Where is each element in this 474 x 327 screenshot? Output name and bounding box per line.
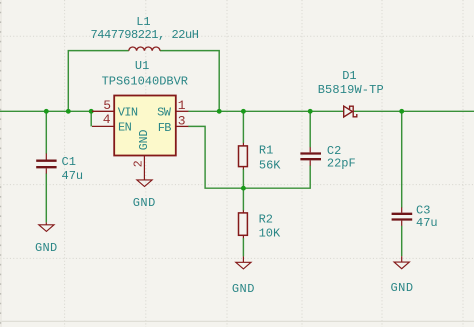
- svg-text:R1: R1: [259, 144, 273, 158]
- capacitor C3 pin stubs: [401, 207, 403, 212]
- svg-text:4: 4: [103, 112, 111, 127]
- resistor R2 body: [239, 213, 248, 235]
- svg-text:3: 3: [178, 114, 186, 129]
- svg-text:U1: U1: [135, 59, 149, 73]
- wire main bus left: [0, 110, 91, 112]
- svg-text:SW: SW: [157, 106, 172, 120]
- svg-text:7447798221, 22uH: 7447798221, 22uH: [90, 28, 198, 42]
- U1 pin 3 FB stub: [176, 125, 189, 127]
- svg-text:2: 2: [133, 160, 146, 167]
- svg-text:C1: C1: [62, 155, 76, 169]
- resistor R1 body: [239, 146, 248, 167]
- wire C3 bottom lead: [401, 226, 403, 257]
- wire diode to right edge: [354, 110, 474, 112]
- capacitor C1 pin stubs: [45, 153, 47, 159]
- svg-text:GND: GND: [232, 282, 255, 296]
- wire C2 top lead: [309, 111, 311, 147]
- U1 pin 1 SW stub: [176, 110, 189, 112]
- capacitor C1 plates: [36, 161, 56, 168]
- svg-text:10K: 10K: [259, 227, 281, 241]
- ground symbol under C1: [45, 222, 47, 224]
- U1 pin 4 EN stub: [92, 125, 114, 127]
- svg-text:FB: FB: [158, 121, 172, 135]
- wire inductor loop: [68, 51, 129, 112]
- svg-text:47u: 47u: [416, 216, 438, 230]
- ground R2 triangle: [236, 262, 251, 269]
- svg-text:L1: L1: [136, 15, 150, 29]
- svg-text:GND: GND: [138, 129, 151, 150]
- wire SW to diode: [188, 110, 344, 112]
- U1 pin 5 VIN stub: [92, 110, 114, 112]
- junction node loop left leg: [66, 109, 71, 114]
- capacitor C3 plates: [392, 214, 413, 220]
- junction node SW loop: [217, 109, 222, 114]
- junction node C3 tap: [399, 109, 404, 114]
- IC U1 body: [114, 96, 176, 156]
- wire C3 top lead: [401, 111, 403, 207]
- junction node R1 tap: [241, 109, 246, 114]
- wire C1 branch upper: [45, 111, 47, 153]
- wire R2 bottom lead: [242, 238, 244, 257]
- svg-text:47u: 47u: [62, 169, 84, 183]
- svg-text:56K: 56K: [259, 159, 281, 173]
- svg-text:TPS61040DBVR: TPS61040DBVR: [102, 75, 188, 89]
- svg-text:GND: GND: [390, 281, 413, 295]
- svg-text:22pF: 22pF: [327, 157, 356, 171]
- svg-text:B5819W-TP: B5819W-TP: [318, 83, 384, 97]
- wire R1 top lead: [242, 111, 244, 143]
- ground C1 triangle: [39, 225, 54, 232]
- svg-text:1: 1: [178, 98, 186, 113]
- wire C1 branch lower: [45, 173, 47, 222]
- diode D1 schottky: [344, 106, 357, 117]
- junction node EN tap: [89, 109, 94, 114]
- capacitor C2 pin stubs: [309, 147, 311, 152]
- wire inductor loop right: [160, 51, 219, 112]
- resistor R2 pin stubs: [242, 210, 244, 213]
- wire R1 bottom lead: [242, 169, 244, 188]
- svg-text:5: 5: [103, 98, 111, 113]
- svg-text:R2: R2: [259, 213, 273, 227]
- svg-text:D1: D1: [342, 69, 356, 83]
- svg-text:GND: GND: [133, 196, 156, 210]
- svg-text:GND: GND: [35, 241, 58, 255]
- resistor R1 pin stubs: [242, 143, 244, 146]
- U1 pin 2 GND stub: [143, 156, 145, 180]
- junction node FB / R1 / R2: [241, 186, 246, 191]
- capacitor C2 plates: [300, 154, 321, 160]
- svg-text:VIN: VIN: [118, 106, 138, 120]
- junction node C2 tap: [308, 109, 313, 114]
- ground symbol under R2: [242, 256, 244, 262]
- wire EN branch: [90, 111, 92, 126]
- wire FB path: [188, 126, 310, 188]
- ground symbol under C3: [401, 256, 403, 262]
- wire R2 top lead: [242, 188, 244, 210]
- svg-text:EN: EN: [118, 121, 132, 135]
- ground U1 pin2: [137, 180, 152, 187]
- inductor L1 coil: [129, 47, 160, 51]
- ground C3 triangle: [394, 262, 409, 269]
- junction node VIN bus / C1: [44, 109, 49, 114]
